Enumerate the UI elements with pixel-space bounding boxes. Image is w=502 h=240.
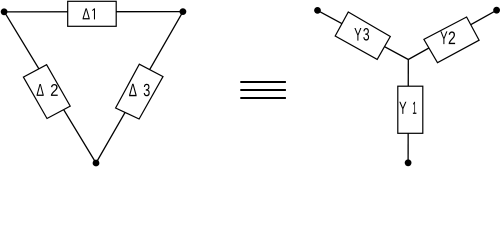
node D wye upper-left xyxy=(314,7,321,14)
equivalence symbol line 3 xyxy=(240,97,286,99)
label "Δ 3" of resistor Δ3 xyxy=(129,84,150,97)
wire: delta top, node A to node B xyxy=(4,11,183,13)
wire: delta right side, node B to node C xyxy=(96,12,183,163)
resistor Δ1 box xyxy=(68,1,117,26)
wire: wye upper-right branch, node E to junction xyxy=(408,10,496,59)
resistor Y1 box xyxy=(398,86,423,133)
resistor Y2 box xyxy=(424,17,479,63)
label "Y2" of resistor Y2 xyxy=(440,31,455,44)
node E wye upper-right xyxy=(493,7,500,14)
resistor Δ2 box xyxy=(23,65,70,119)
node A top-left xyxy=(1,8,8,15)
equivalence symbol line 2 xyxy=(240,89,286,91)
node F wye bottom xyxy=(405,159,412,166)
wire: wye bottom branch, junction to node F xyxy=(407,60,409,163)
node B top-right xyxy=(180,8,187,15)
label "Y3" of resistor Y3 xyxy=(354,28,369,41)
label "Y 1" of resistor Y1 xyxy=(399,102,416,114)
label "Δ 2" of resistor Δ2 xyxy=(37,84,58,96)
equivalence symbol line 1 xyxy=(240,81,286,83)
node C bottom xyxy=(93,160,100,167)
wire: wye upper-left branch, node D to junction xyxy=(318,10,409,59)
label "Δ1" of resistor Δ1 xyxy=(83,8,95,19)
resistor Y3 box xyxy=(335,12,390,59)
resistor Δ3 box xyxy=(116,64,163,119)
wire: delta left side, node A to node C xyxy=(4,12,96,163)
